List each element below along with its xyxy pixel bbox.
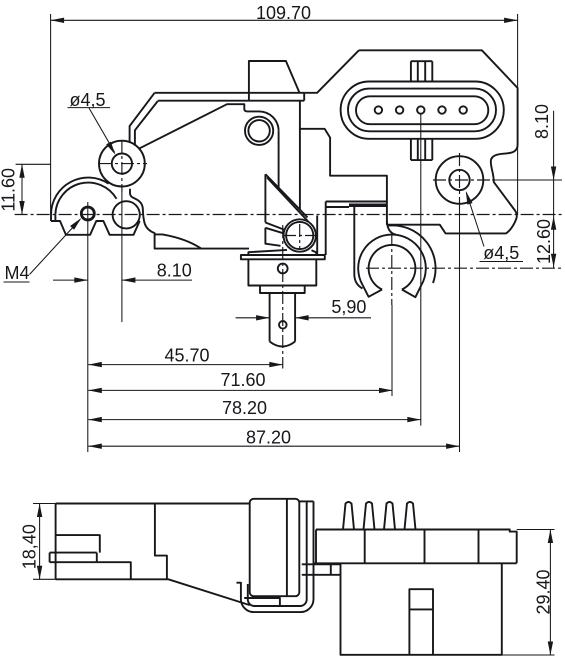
svg-text:12.60: 12.60 xyxy=(534,219,554,264)
svg-text:18,40: 18,40 xyxy=(19,524,39,569)
svg-text:87.20: 87.20 xyxy=(246,427,291,447)
svg-text:5,90: 5,90 xyxy=(331,297,366,317)
svg-text:71.60: 71.60 xyxy=(220,370,265,390)
svg-text:ø4,5: ø4,5 xyxy=(69,90,105,110)
svg-text:8.10: 8.10 xyxy=(532,104,552,139)
svg-text:ø4,5: ø4,5 xyxy=(483,243,519,263)
svg-text:78.20: 78.20 xyxy=(222,398,267,418)
svg-text:29.40: 29.40 xyxy=(534,569,554,614)
svg-text:109.70: 109.70 xyxy=(256,3,311,23)
svg-text:45.70: 45.70 xyxy=(164,346,209,366)
svg-text:11.60: 11.60 xyxy=(0,168,18,212)
svg-text:M4: M4 xyxy=(5,263,30,283)
svg-text:8.10: 8.10 xyxy=(157,260,192,280)
